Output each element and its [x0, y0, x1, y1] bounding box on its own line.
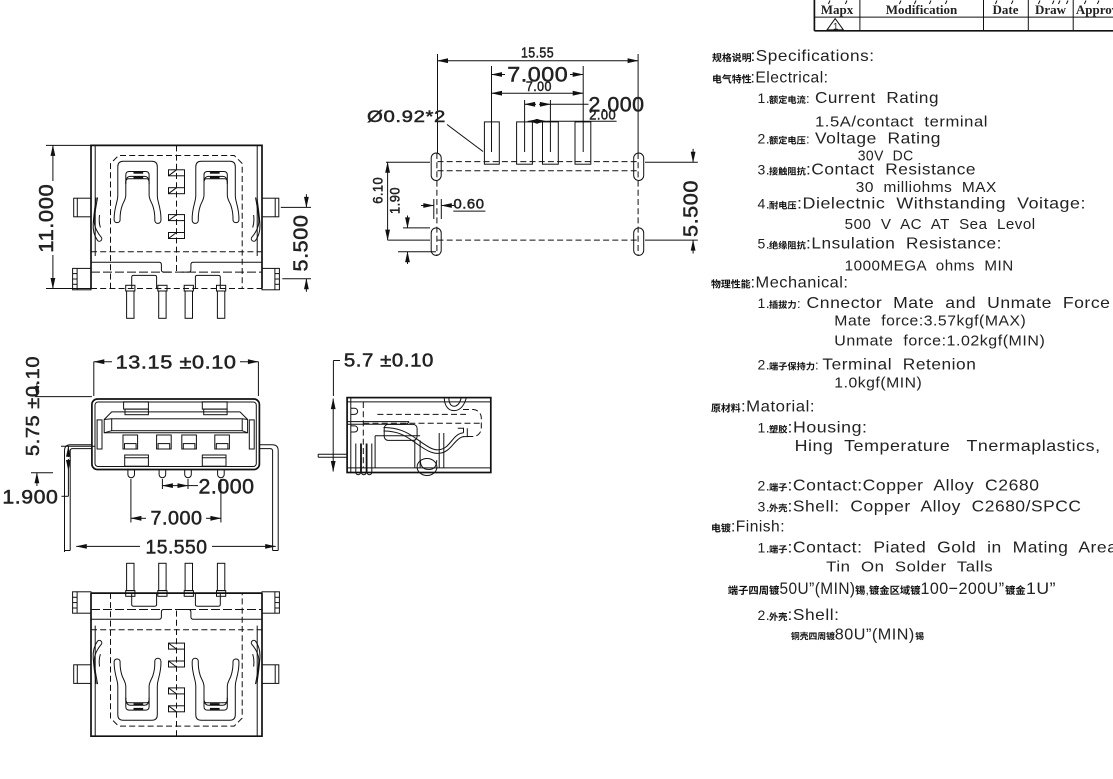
side view lead wire — [318, 453, 347, 455]
svg-text:1.: 1. — [758, 90, 771, 106]
svg-text:0.60: 0.60 — [454, 196, 485, 212]
svg-text:5.75 ±0.10: 5.75 ±0.10 — [23, 356, 43, 456]
svg-text:7.00: 7.00 — [526, 78, 552, 94]
svg-text:5.500: 5.500 — [290, 215, 312, 272]
svg-text:Ø0.92*2: Ø0.92*2 — [367, 107, 446, 126]
front view top latch holes — [124, 402, 149, 409]
side view bottom hairpins — [356, 444, 361, 475]
svg-text:1000MEGA ohms MIN: 1000MEGA ohms MIN — [845, 258, 1014, 275]
side view contact arm — [347, 421, 409, 423]
revision triangle 1 — [827, 19, 843, 30]
top view lower left mounting tab — [73, 268, 91, 289]
top view pins — [126, 285, 135, 291]
svg-text:Tin On Solder Talls: Tin On Solder Talls — [826, 559, 993, 576]
svg-text:3.: 3. — [758, 498, 771, 514]
svg-text:Date: Date — [993, 2, 1019, 17]
dim 5.75 +-0.10 (front view height) — [35, 396, 92, 398]
front view shell outline — [92, 399, 260, 470]
table tick remnants — [828, 1, 847, 5]
svg-text::Shell: Copper Alloy C2680/: :Shell: Copper Alloy C2680/SPCC — [788, 498, 1082, 515]
side view body outline — [347, 398, 491, 473]
dim 13.15 +-0.10 — [93, 362, 95, 396]
svg-text:2.00: 2.00 — [589, 107, 616, 123]
svg-text:5.500: 5.500 — [680, 180, 702, 237]
svg-text:80U”(MIN): 80U”(MIN) — [835, 626, 915, 643]
svg-text::Shell:: :Shell: — [788, 607, 840, 624]
front view tongue slab — [104, 412, 247, 433]
svg-text:Voltage Rating: Voltage Rating — [815, 131, 941, 148]
svg-text::Mechanical:: :Mechanical: — [751, 275, 849, 292]
svg-text:4.: 4. — [758, 196, 771, 212]
svg-text::: : — [806, 132, 810, 147]
side view: cross-section — [318, 398, 491, 476]
svg-text:1.: 1. — [758, 420, 771, 436]
top view right retention hook — [251, 198, 260, 242]
dim 7.000 (front pins outer) — [130, 479, 132, 523]
plan view dashed outline verticals — [436, 153, 438, 256]
dim 7.00 — [492, 92, 584, 94]
svg-text:2.000: 2.000 — [199, 476, 255, 499]
top view lower right mounting tab — [262, 268, 279, 289]
dim 11.000 (top view height) — [46, 144, 91, 146]
svg-text:2.: 2. — [758, 131, 771, 147]
top view upper left mounting tab — [74, 198, 91, 217]
plan view solder pads — [484, 122, 499, 164]
top view left retention hook — [93, 198, 102, 242]
side view center posts — [414, 440, 416, 468]
dim 5.500 (plan view right) — [645, 161, 698, 163]
svg-text:,: , — [866, 583, 870, 597]
dim 5.7 +-0.10 (side view height) — [332, 361, 334, 397]
side view spring curve — [384, 428, 464, 454]
svg-text:Terminal Retenion: Terminal Retenion — [822, 357, 976, 374]
dim 2.000 (pad pitch) — [525, 103, 536, 105]
svg-text::Contact Resistance: :Contact Resistance — [806, 162, 976, 179]
top view right latch spring — [192, 161, 239, 223]
front view left solder leg — [65, 445, 92, 551]
dim 1.900 — [61, 445, 95, 447]
top view body outline — [91, 145, 262, 288]
front view bottom pins — [128, 470, 135, 478]
top view dashed inner housing outline — [111, 156, 243, 289]
svg-text:Draw: Draw — [1035, 2, 1067, 17]
svg-text:2.: 2. — [758, 478, 771, 494]
svg-text:Mapx: Mapx — [821, 2, 854, 17]
svg-text:7.000: 7.000 — [151, 509, 203, 530]
dim 5.500 (top view side) — [281, 206, 311, 208]
dim 15.55 — [437, 54, 439, 153]
svg-text::Dielectnic Withstanding Voi: :Dielectnic Withstanding Voitage: — [797, 196, 1086, 213]
svg-text:Hing Temperature Tnermaplas: Hing Temperature Tnermaplastics, — [795, 438, 1101, 455]
svg-text:3.: 3. — [758, 162, 771, 178]
dim 2.000 (front pins) — [161, 479, 163, 489]
front view: USB-A receptacle face — [65, 399, 279, 551]
top view solder lug right — [195, 275, 220, 288]
svg-text:Modification: Modification — [886, 2, 958, 17]
svg-text:30 milliohms MAX: 30 milliohms MAX — [856, 179, 997, 196]
svg-text:1: 1 — [833, 21, 838, 32]
svg-text:1.900: 1.900 — [2, 488, 58, 509]
svg-text:13.15 ±0.10: 13.15 ±0.10 — [116, 353, 237, 373]
side view inner box — [375, 435, 420, 437]
svg-text:5.: 5. — [758, 236, 771, 252]
svg-text:1.5A/contact terminal: 1.5A/contact terminal — [815, 114, 988, 131]
top view left latch spring — [114, 161, 161, 223]
svg-text:6.10: 6.10 — [369, 177, 385, 204]
dim 1.90 — [403, 227, 430, 229]
svg-text:1.: 1. — [758, 295, 771, 311]
dim 15.550 (front overall) — [76, 545, 140, 547]
front view side wall bars — [97, 420, 102, 449]
front view contact slots — [123, 435, 138, 449]
dim 0.60 — [433, 199, 435, 219]
top view upper right mounting tab — [262, 198, 279, 217]
top view center contact ladder marks — [169, 170, 185, 176]
dim 7.000 (pads outer) — [492, 74, 506, 76]
svg-text::Finish:: :Finish: — [731, 519, 785, 536]
revision table — [813, 0, 815, 31]
svg-text::Electrical:: :Electrical: — [751, 70, 829, 87]
side view top-right hook — [444, 398, 466, 411]
svg-text::: : — [815, 358, 819, 373]
bottom view: mirrored copy of top view — [73, 563, 280, 736]
side view solder tail ellipse — [417, 459, 437, 476]
svg-text:500 V AC AT Sea Levol: 500 V AC AT Sea Levol — [845, 216, 1036, 233]
svg-text:1.0kgf(MIN): 1.0kgf(MIN) — [834, 375, 922, 392]
svg-text:15.550: 15.550 — [146, 538, 208, 559]
svg-text:Mate force:3.57kgf(MAX): Mate force:3.57kgf(MAX) — [834, 313, 1026, 330]
side view folded contact box — [384, 424, 417, 440]
side view dashed tongue tip — [463, 410, 481, 437]
svg-text:2.: 2. — [758, 357, 771, 373]
svg-text:1U”: 1U” — [1026, 579, 1056, 598]
svg-text:5.7 ±0.10: 5.7 ±0.10 — [344, 351, 434, 371]
svg-text:Current Rating: Current Rating — [815, 90, 939, 107]
bottom view top edge solid line — [91, 592, 262, 594]
svg-text::: : — [797, 296, 801, 311]
svg-text:Unmate force:1.02kgf(MIN): Unmate force:1.02kgf(MIN) — [834, 333, 1045, 350]
svg-text:100−200U”: 100−200U” — [921, 579, 1005, 598]
top view solder lug left — [132, 275, 157, 288]
dim 6.10 — [386, 161, 430, 163]
svg-text:11.000: 11.000 — [36, 184, 58, 253]
svg-text::Matorial:: :Matorial: — [741, 399, 815, 416]
svg-text:1.: 1. — [758, 540, 771, 556]
svg-text:50U”(MIN): 50U”(MIN) — [780, 579, 856, 598]
top view inner shell wall lines — [94, 145, 96, 256]
svg-text:2.: 2. — [758, 607, 771, 623]
svg-text::: : — [806, 91, 810, 106]
plan view dashed outline horizontals — [438, 161, 639, 163]
side view left stops — [351, 408, 358, 414]
svg-text::Lnsulation Resistance:: :Lnsulation Resistance: — [806, 236, 1002, 253]
svg-text:Cnnector Mate and Unmate F: Cnnector Mate and Unmate Force — [807, 295, 1111, 312]
dim 2.00 — [528, 120, 539, 122]
svg-text::Contact:Copper Alloy C2680: :Contact:Copper Alloy C2680 — [788, 478, 1040, 495]
svg-text::Specifications:: :Specifications: — [751, 48, 875, 65]
svg-text:1.90: 1.90 — [387, 187, 403, 214]
side view right post — [438, 433, 440, 468]
side view dashed internals — [362, 402, 364, 468]
front view right solder leg — [259, 445, 278, 551]
svg-text:15.55: 15.55 — [521, 45, 554, 62]
svg-text:Approve: Approve — [1076, 2, 1113, 17]
top view: USB-A receptacle seen from above — [73, 145, 280, 318]
svg-text::Housing:: :Housing: — [788, 420, 868, 437]
svg-text::Contact: Piated Gold in M: :Contact: Piated Gold in Mating Area — [788, 540, 1113, 557]
plan view pad center lines — [491, 66, 493, 152]
top view rear shield band — [91, 251, 262, 253]
plan view through holes — [431, 153, 441, 181]
top view center line — [176, 145, 178, 272]
front view lower latch holes — [125, 455, 149, 466]
specifications text block — [712, 53, 721, 62]
